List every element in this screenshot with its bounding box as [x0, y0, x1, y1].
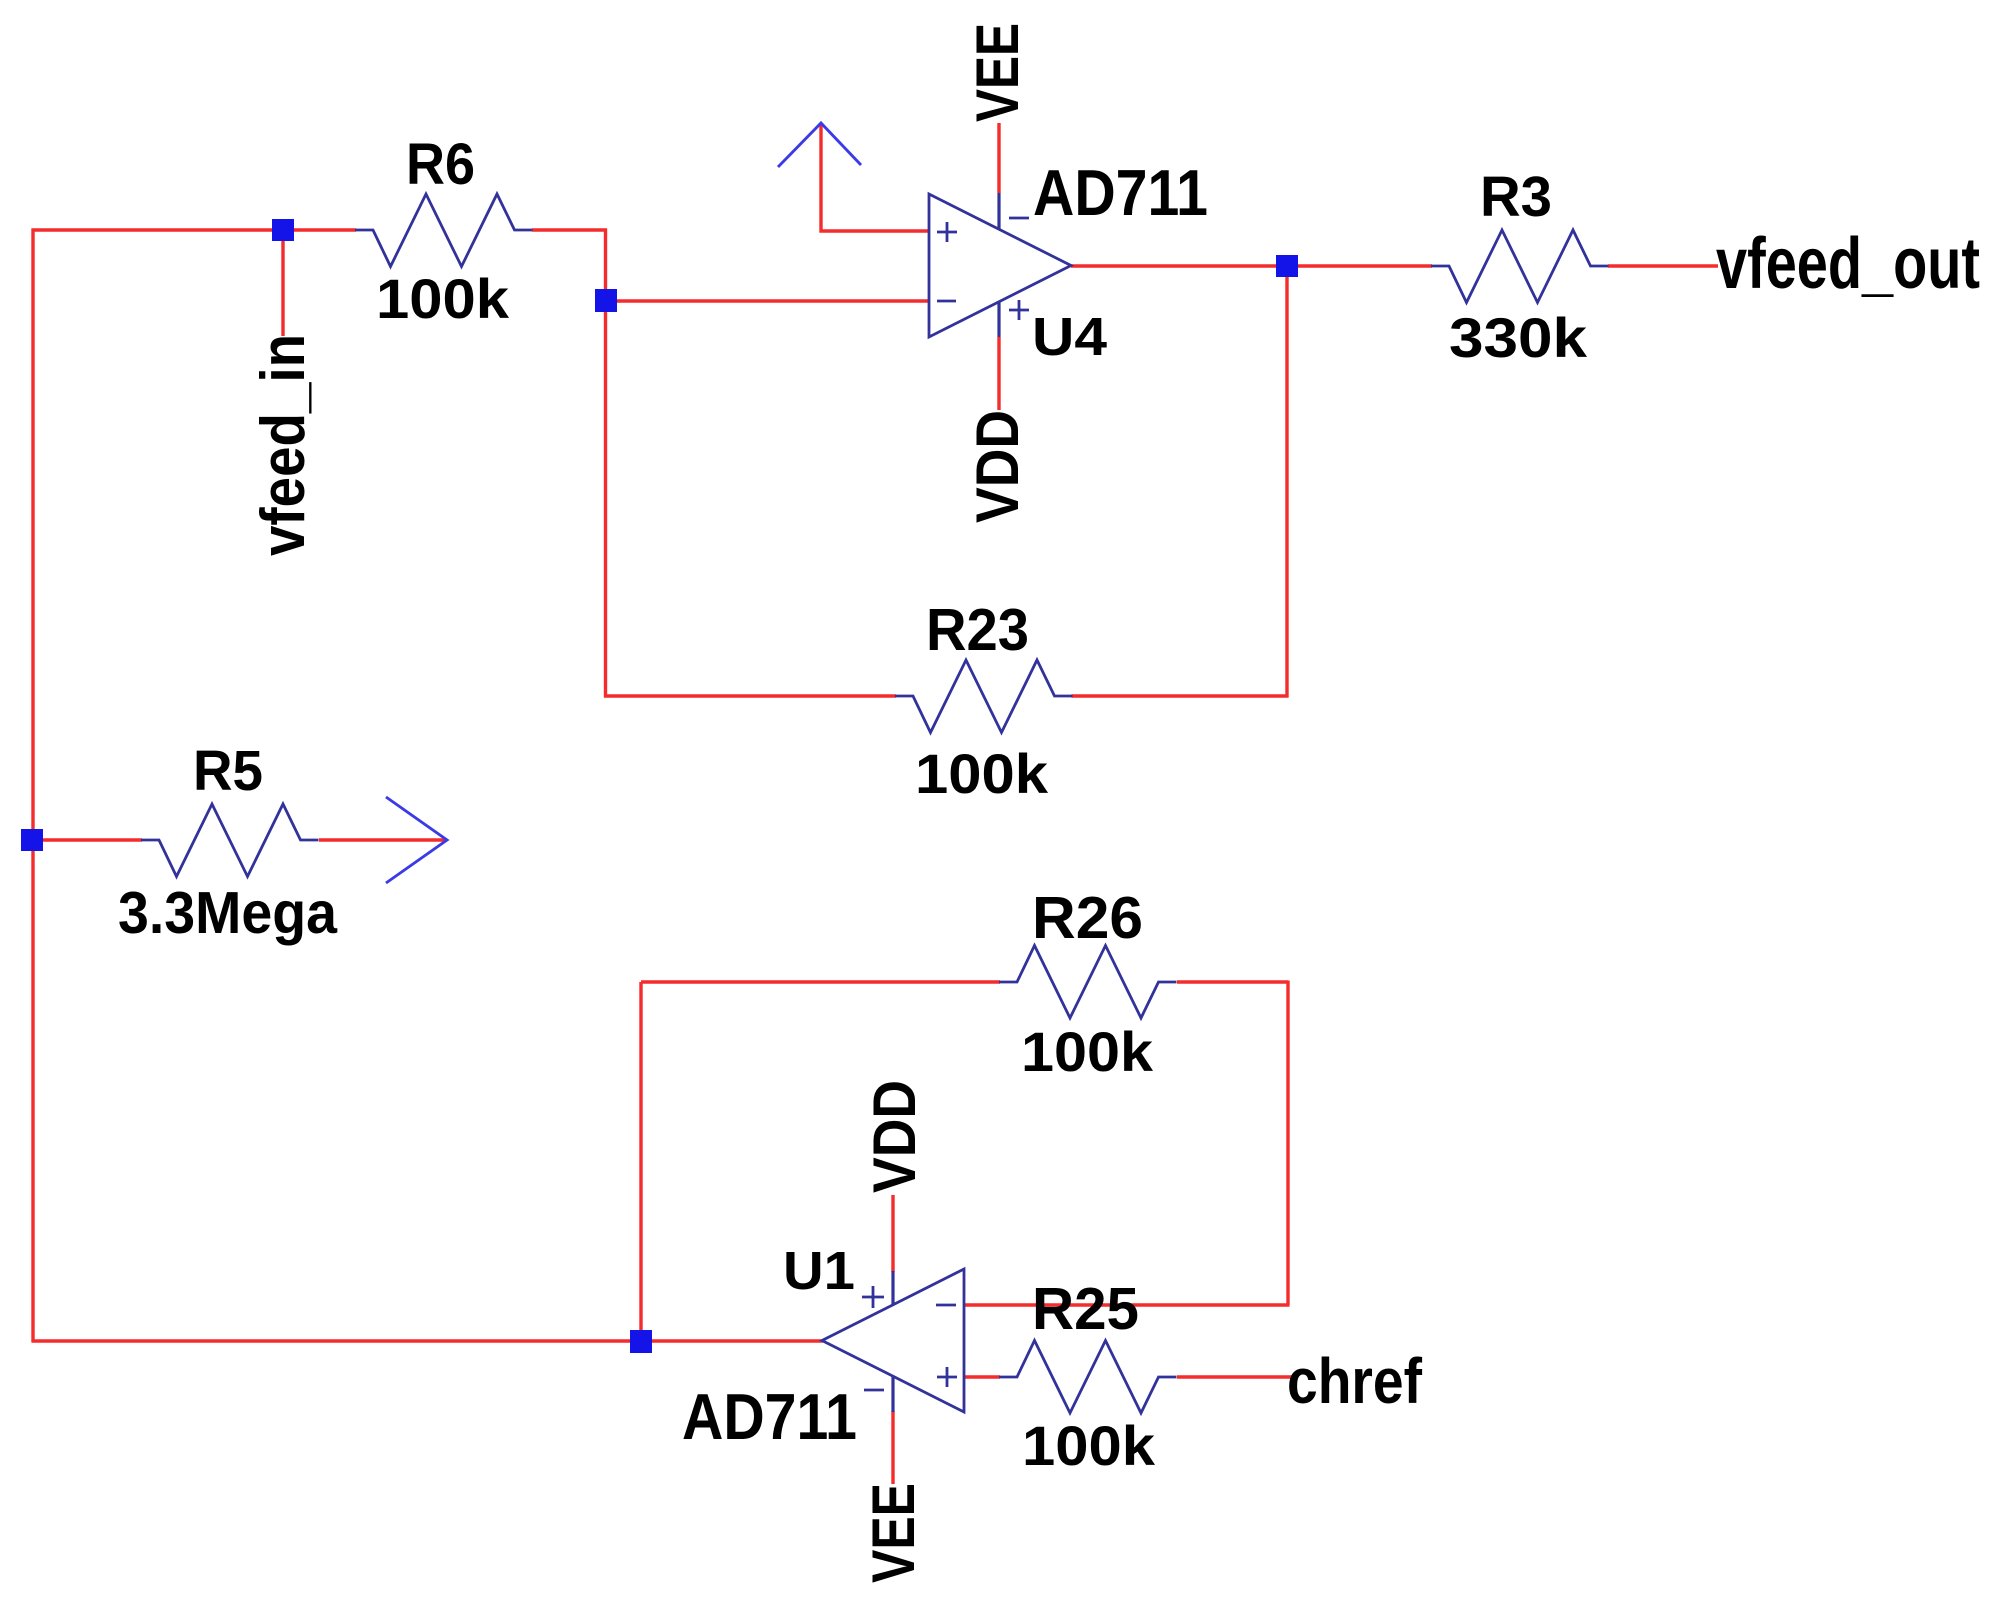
wire: U1 VDD supply stub — [891, 1195, 894, 1272]
wire: vertical from R6 corner down to R23 loop — [604, 229, 607, 698]
node: junction at U1 output — [630, 1330, 652, 1353]
op-amp U1 VEE pin — [891, 1376, 894, 1412]
svg-text:3.3Mega: 3.3Mega — [118, 880, 338, 946]
resistor R5 — [141, 804, 319, 877]
wire: R6 right to corner at x=605 — [532, 228, 607, 231]
wire: R5 left lead from left bus node — [33, 838, 142, 841]
resistor R25 — [999, 1341, 1177, 1414]
op-amp U1 inverting - marker — [936, 1304, 956, 1307]
svg-text:VEE: VEE — [860, 1483, 927, 1583]
wire: R26 loop top left run — [641, 980, 1000, 983]
resistor R3 — [1431, 230, 1609, 303]
wire: U1 VEE supply stub — [891, 1411, 894, 1484]
wire: R26 loop left vertical — [639, 982, 642, 1342]
svg-text:chref: chref — [1287, 1345, 1423, 1417]
op-amp U4 VEE - marker — [1009, 217, 1029, 220]
wire: vfeed_in stub down from junction — [281, 230, 284, 336]
node: junction at U4 output — [1276, 255, 1298, 277]
node: junction vfeed_in on top wire — [272, 219, 294, 241]
svg-text:U1: U1 — [783, 1241, 855, 1301]
svg-text:AD711: AD711 — [682, 1380, 857, 1453]
wire: R26 loop bottom run to U1 inverting input — [964, 1303, 1290, 1306]
wire: left vertical bus — [31, 229, 34, 1343]
svg-text:vfeed_out: vfeed_out — [1716, 224, 1980, 304]
op-amp U4 input - marker — [937, 300, 956, 303]
svg-text:R6: R6 — [406, 132, 475, 197]
svg-text:U4: U4 — [1032, 307, 1107, 367]
off-page arrow (up) at U4 + input — [778, 123, 861, 167]
wire: R26 loop right vertical — [1286, 981, 1289, 1306]
svg-text:VEE: VEE — [964, 23, 1031, 122]
op-amp U1 VDD + marker — [862, 1286, 884, 1308]
svg-text:100k: 100k — [915, 742, 1049, 805]
wire: U1 + input to R25 — [964, 1375, 1000, 1378]
op-amp U4 VDD pin — [997, 302, 1000, 337]
off-page arrow (right) at R5 — [386, 797, 447, 883]
node: junction at U4 inverting input branch — [595, 289, 617, 312]
svg-text:VDD: VDD — [861, 1080, 928, 1193]
svg-text:330k: 330k — [1449, 306, 1588, 369]
wire: top-left horizontal from left bus to R6 — [32, 228, 357, 231]
wire: R26 right lead to right vertical — [1177, 980, 1288, 983]
resistor R23 — [895, 660, 1073, 733]
op-amp U4 VEE pin — [997, 193, 1000, 229]
op-amp U1 VEE - marker — [864, 1389, 884, 1392]
svg-text:R26: R26 — [1032, 885, 1143, 951]
wire: U4 VDD supply stub — [997, 337, 1000, 410]
wire: output node down to R23 feedback — [1285, 266, 1288, 698]
svg-text:100k: 100k — [1021, 1020, 1154, 1083]
op-amp U1 non-inverting + marker — [937, 1367, 957, 1387]
svg-text:R3: R3 — [1480, 165, 1552, 229]
svg-text:R5: R5 — [193, 739, 263, 803]
wire: U4 output to node and on to R3 — [1071, 264, 1432, 267]
svg-text:vfeed_in: vfeed_in — [249, 334, 318, 556]
wire: R23 feedback bottom left run — [604, 694, 896, 697]
wire: junction to U4 inverting input — [606, 299, 930, 302]
wire: R23 feedback bottom right run — [1072, 694, 1289, 697]
wire: R3 right lead to vfeed_out — [1608, 264, 1718, 267]
wire: R25 right lead to chref — [1177, 1375, 1298, 1378]
svg-text:AD711: AD711 — [1033, 156, 1208, 229]
op-amp U4 VDD + marker — [1009, 300, 1029, 320]
op-amp U1 triangle (mirrored) — [822, 1269, 964, 1412]
wire: R5 right lead to arrow tip — [319, 838, 446, 841]
resistor R26 — [999, 946, 1177, 1019]
wire: U4 VEE supply stub — [997, 123, 1000, 193]
resistor R6 — [355, 194, 533, 267]
svg-text:100k: 100k — [1022, 1414, 1156, 1477]
svg-text:100k: 100k — [376, 267, 510, 330]
op-amp U4 input + marker — [937, 222, 957, 242]
op-amp U4 triangle — [929, 194, 1071, 337]
op-amp U1 VDD pin — [891, 1271, 894, 1305]
wire: U1 output run across bottom to left bus — [32, 1339, 824, 1342]
svg-text:R23: R23 — [926, 597, 1029, 663]
svg-text:R25: R25 — [1032, 1276, 1139, 1342]
node: junction at R5 on left bus — [21, 829, 43, 851]
svg-text:VDD: VDD — [964, 410, 1031, 523]
wire: arrow stem down then right to U4 non-inverting input — [821, 123, 929, 231]
